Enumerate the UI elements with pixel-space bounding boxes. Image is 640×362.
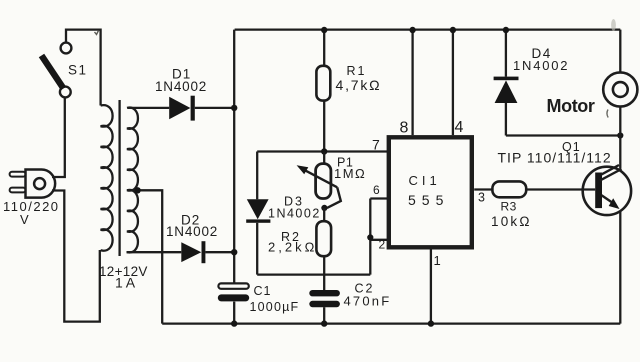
node C2 ground <box>321 320 327 326</box>
node D4 bottom / collector <box>617 132 623 138</box>
scan artifact smudge top right <box>611 19 616 31</box>
switch lever <box>42 56 64 89</box>
svg-text:R1: R1 <box>347 64 367 78</box>
node pin 8 <box>409 27 415 33</box>
svg-text:1A: 1A <box>115 275 138 291</box>
wire secondary top to D1 <box>128 107 169 109</box>
svg-text:3: 3 <box>478 191 485 205</box>
svg-text:555: 555 <box>408 192 449 208</box>
switch S1 <box>42 30 101 106</box>
node pin2 junction <box>367 234 373 240</box>
svg-text:TIP 110/111/112: TIP 110/111/112 <box>498 150 612 166</box>
transformer T1 secondary coil <box>127 108 138 253</box>
svg-text:4: 4 <box>455 119 464 136</box>
wire pin 8 <box>411 30 413 135</box>
wire emitter to ground <box>619 211 621 324</box>
wire rectifier output rail <box>233 30 235 324</box>
plug prong top <box>10 172 26 177</box>
op-amp CI1 555 box <box>389 137 472 247</box>
wire trigger node line <box>257 273 370 275</box>
node R1 top <box>321 27 327 33</box>
motor M1 <box>603 72 637 106</box>
transistor Q1 <box>583 165 631 215</box>
wire pin 6 <box>370 197 388 199</box>
wire pin 2 <box>370 239 388 241</box>
svg-text:1N4002: 1N4002 <box>268 207 321 221</box>
switch terminal bottom <box>60 87 71 98</box>
scan artifact check mark <box>95 31 99 35</box>
wire secondary bottom to D2 <box>127 251 182 253</box>
svg-text:8: 8 <box>400 120 409 137</box>
wire bottom ground rail <box>162 322 620 324</box>
node C1 ground <box>231 320 237 326</box>
node pin 1 ground <box>428 320 434 326</box>
transformer T1 primary coil <box>101 105 113 251</box>
svg-text:1: 1 <box>434 253 441 268</box>
node R1 bottom / pin7 <box>321 148 327 154</box>
svg-text:1000µF: 1000µF <box>250 300 300 314</box>
wire plug bottom loop to primary <box>52 191 100 322</box>
svg-text:2,2kΩ: 2,2kΩ <box>268 240 317 255</box>
transformer core <box>118 100 120 256</box>
diode D1 <box>169 96 234 121</box>
node pin 4 <box>450 27 456 33</box>
svg-text:1N4002: 1N4002 <box>155 79 207 94</box>
svg-text:C1: C1 <box>254 284 272 298</box>
svg-text:Motor: Motor <box>547 96 595 116</box>
capacitor C1 <box>218 283 249 301</box>
potentiometer P1 <box>297 152 341 208</box>
svg-text:2: 2 <box>379 238 386 252</box>
svg-text:CI1: CI1 <box>409 173 441 188</box>
svg-text:10kΩ: 10kΩ <box>491 214 532 229</box>
node D2 cathode <box>231 249 237 255</box>
wire pin7 line <box>257 150 388 152</box>
node center tap <box>134 187 140 193</box>
wire pin 1 <box>430 250 432 324</box>
svg-text:S1: S1 <box>68 63 88 78</box>
plug body <box>10 170 56 198</box>
svg-text:1MΩ: 1MΩ <box>334 166 366 181</box>
node D4 top <box>503 27 509 33</box>
plug prong bottom <box>10 188 26 193</box>
wire pin 4 <box>452 30 454 135</box>
node D1 cathode <box>231 105 237 111</box>
wire pin6-pin2 link <box>369 199 371 275</box>
wire pin 3 <box>474 188 492 190</box>
svg-text:110/220: 110/220 <box>3 199 60 214</box>
scan artifact tick under motor <box>607 110 608 118</box>
node P1 wiper / R2 top <box>321 205 327 211</box>
wire switch top to transformer <box>66 30 101 106</box>
capacitor C2 <box>309 290 340 324</box>
wire switch bottom to plug <box>52 98 65 177</box>
resistor R1 <box>316 30 330 152</box>
wire center tap to ground <box>138 190 163 323</box>
resistor R3 <box>492 181 595 197</box>
wire top rail <box>235 28 621 30</box>
svg-text:1N4002: 1N4002 <box>166 224 218 239</box>
diode D4 <box>494 30 621 136</box>
diode D2 <box>181 241 234 263</box>
svg-text:R3: R3 <box>501 200 517 214</box>
switch terminal top <box>61 43 72 54</box>
resistor R2 <box>316 208 331 290</box>
svg-text:1N4002: 1N4002 <box>513 58 569 73</box>
svg-text:4,7kΩ: 4,7kΩ <box>336 77 382 93</box>
svg-text:470nF: 470nF <box>344 294 392 309</box>
svg-text:V: V <box>20 212 29 227</box>
wire motor branch <box>619 30 621 169</box>
svg-text:6: 6 <box>373 183 380 197</box>
svg-text:7: 7 <box>372 137 380 153</box>
diode D3 <box>246 152 270 275</box>
